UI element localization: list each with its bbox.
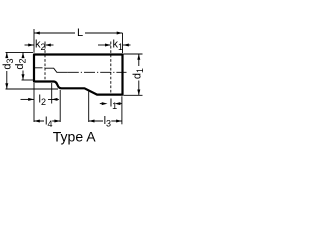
d2 bottom extension line	[22, 79, 34, 81]
d1 top extension line	[124, 53, 143, 55]
L dimension line	[34, 32, 123, 34]
svg-text:Type A: Type A	[53, 129, 96, 145]
d3/d2 shared top extension line	[6, 51, 34, 53]
d1 bottom extension line	[124, 94, 143, 96]
k2 dimension (outside arrows)	[25, 44, 35, 46]
l1 dimension	[100, 103, 104, 105]
hidden edge dashed line at k2 (x=45)	[44, 42, 46, 81]
centerline left section (dash-dot)	[35, 67, 46, 69]
d2 dimension line + arrows	[22, 52, 24, 80]
body outline of reducer, thick	[34, 55, 123, 95]
l2 dimension (outside arrows)	[21, 98, 35, 100]
centerline right section (dash-dot)	[68, 71, 127, 73]
l3 dimension (inside arrows)	[89, 120, 122, 122]
d3 bottom extension line	[6, 88, 59, 90]
svg-text:L: L	[77, 27, 83, 39]
l4 right extension x=59.8	[59, 90, 61, 122]
bottom left extension line x=34	[33, 83, 35, 122]
d3 dimension line + arrows	[6, 52, 8, 89]
l4 dimension (inside arrows)	[34, 120, 60, 122]
l2 right extension x=51.7	[51, 83, 53, 104]
k1 dimension (outside arrows)	[98, 44, 111, 46]
centerline offset transition (thin solid)	[45, 68, 68, 72]
L dimension: extension lines	[33, 29, 35, 53]
hidden edge dashed line at k1 (x=110.8)	[110, 42, 112, 95]
d1 dimension line + arrows	[138, 54, 140, 95]
right bottom extension x=121.9	[121, 96, 123, 124]
l3 left extension x=88.7	[88, 92, 90, 123]
